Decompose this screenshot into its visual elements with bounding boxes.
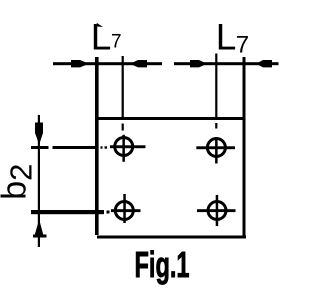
b2 lower extension line (thick, to hole H3) — [31, 210, 110, 214]
plate left edge (thick, extends up as extension line) — [95, 57, 99, 235]
dimension line top segment B (right L7) — [174, 62, 279, 65]
hole H1 centerline vertical (extension above plate + dash) — [122, 56, 124, 131]
b2 arrow up (bottom) with tail flag — [33, 220, 47, 238]
plate bottom edge — [97, 236, 246, 239]
dimension line top segment A (left L7) — [53, 62, 162, 65]
hole H4 (bottom-right) circle — [208, 202, 226, 220]
hole H2 vertical crosshair arm — [215, 137, 218, 164]
svg-text:Fig.1: Fig.1 — [135, 245, 190, 285]
hole H3 (bottom-left) circle — [115, 202, 133, 220]
svg-text:b2: b2 — [0, 164, 39, 200]
hole H4 vertical crosshair arm — [216, 195, 219, 226]
arrow A2 pointing left — [130, 60, 147, 67]
arrow A1 pointing right — [71, 60, 89, 67]
hole H2 (top-right) circle — [207, 139, 225, 157]
label b2 (rotated) — [0, 164, 39, 200]
arrow B1 pointing right — [190, 60, 207, 67]
hole H2 centerline vertical (extension above plate + dash) — [215, 54, 217, 129]
b2 upper extension line (hole H1 horizontal centerline) — [31, 145, 146, 149]
hole H3 horizontal crosshair arm — [111, 209, 141, 212]
plate right edge (extends up as extension line) — [243, 57, 246, 239]
b2 dimension line vertical — [38, 115, 40, 247]
svg-text:7: 7 — [236, 32, 249, 59]
label L7 left — [91, 17, 122, 58]
svg-text:L: L — [91, 17, 112, 58]
b2 arrow down (top) — [35, 123, 43, 145]
caption Fig.1 — [135, 245, 190, 285]
arrow B2 pointing left — [256, 60, 272, 67]
hole H1 vertical crosshair arm — [122, 135, 125, 162]
svg-text:L: L — [216, 17, 237, 58]
hole H1 (top-left) circle — [115, 138, 133, 156]
plate top edge — [95, 117, 246, 120]
hole H2 horizontal crosshair arm — [196, 146, 235, 149]
label L7 right — [216, 17, 249, 59]
svg-text:7: 7 — [111, 32, 122, 53]
hole H3 vertical crosshair arm — [123, 194, 126, 223]
hole H4 horizontal crosshair arm — [197, 209, 236, 212]
